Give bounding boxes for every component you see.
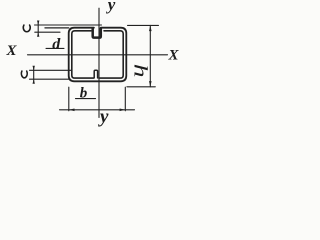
- dim d: leader underline: [46, 47, 64, 49]
- svg-text:X: X: [6, 43, 18, 59]
- dim c top: lower extension line: [35, 31, 60, 33]
- arrow b left: [69, 109, 75, 112]
- dim b: label underline: [76, 98, 96, 100]
- arrow c top lower (outside, pointing up): [37, 32, 39, 37]
- dim h: bottom extension line: [127, 86, 155, 88]
- arrow c top upper (outside, pointing down): [37, 21, 39, 26]
- dim b: dimension line: [60, 109, 135, 111]
- dim b: right extension line: [124, 87, 126, 111]
- dim c bottom: lower extension line: [30, 78, 70, 80]
- dim c top: dimension line: [37, 22, 39, 36]
- svg-text:d: d: [52, 36, 61, 53]
- arrow b right: [120, 109, 126, 112]
- svg-text:y: y: [106, 0, 116, 14]
- arrow c bottom lower (outside, pointing up): [33, 79, 35, 84]
- dim c bottom: upper extension line: [30, 69, 72, 71]
- arrow h top: [149, 25, 152, 31]
- y-y axis line: [98, 8, 100, 117]
- profile outer top-left extension: [45, 27, 69, 29]
- svg-text:h: h: [129, 64, 150, 78]
- top groove U: [93, 28, 101, 37]
- arrow h bottom: [149, 81, 152, 87]
- profile outer contour: [69, 28, 127, 82]
- arrow c bottom upper (outside, pointing down): [33, 66, 35, 71]
- dim h: dimension line: [149, 25, 151, 86]
- svg-text:y: y: [98, 107, 109, 128]
- profile inner contour left: [72, 31, 94, 78]
- profile inner contour right: [99, 31, 123, 78]
- bottom seam rib: [94, 70, 97, 78]
- X-X axis line: [28, 54, 168, 56]
- svg-text:b: b: [80, 86, 88, 102]
- dim b: left extension line: [68, 87, 70, 111]
- dim c bottom: dimension line: [33, 67, 35, 82]
- label c top (rotated ring with top gap): [23, 25, 30, 32]
- dim h: top extension line: [128, 24, 159, 26]
- dim c top: upper extension line: [35, 24, 102, 26]
- label c bottom (rotated ring with top gap): [21, 71, 27, 78]
- svg-text:X: X: [168, 48, 180, 64]
